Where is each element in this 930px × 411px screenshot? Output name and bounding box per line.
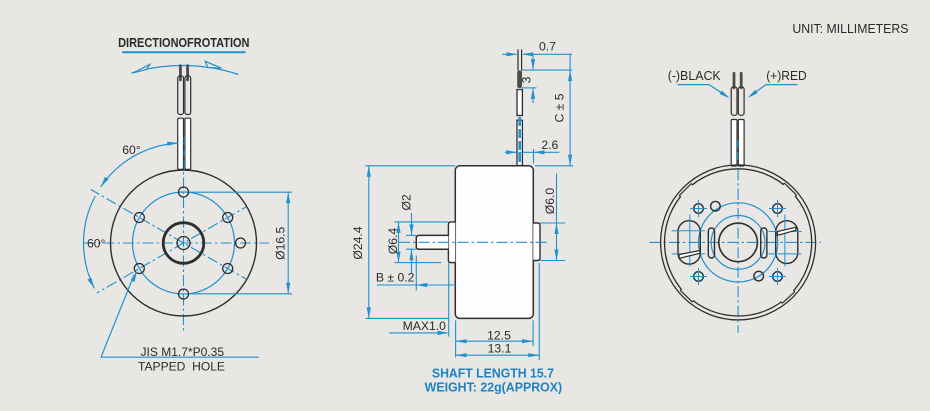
dia6.4 line xyxy=(396,222,400,263)
dim 3 extension bottom xyxy=(522,87,537,89)
dia2 extension top xyxy=(406,234,416,236)
back view vertical center line xyxy=(737,150,739,333)
back view screw hole lower left xyxy=(690,268,707,285)
front view vertical center line xyxy=(183,119,185,332)
dim C line xyxy=(568,54,572,166)
front view lead wire 2 upper segment xyxy=(185,76,191,115)
svg-text:(-)BLACK: (-)BLACK xyxy=(668,69,722,83)
dia16.5 dimension line xyxy=(286,192,290,294)
dim 12.5 ext right xyxy=(532,320,534,346)
side view motor body xyxy=(455,166,533,319)
svg-text:MAX1.0: MAX1.0 xyxy=(403,319,447,333)
svg-text:Ø6.4: Ø6.4 xyxy=(386,228,400,255)
back view rim tab at 226deg xyxy=(680,289,694,302)
dim B line xyxy=(377,283,455,287)
dim 2.6 label xyxy=(541,138,558,152)
svg-text:(+)RED: (+)RED xyxy=(766,69,807,83)
front view lead wire 1 lower segment xyxy=(178,118,184,169)
side view wire crimp xyxy=(517,71,522,89)
front view bolt circle xyxy=(133,192,235,294)
front view lead wire 1 bare tip xyxy=(179,64,182,81)
dim 2.6 extension xyxy=(533,149,535,164)
svg-text:TAPPED HOLE: TAPPED HOLE xyxy=(138,360,225,374)
black wire leader xyxy=(678,85,730,99)
back view terminal opening right xyxy=(776,221,798,264)
tapped hole leader shelf xyxy=(101,356,259,358)
side view left bearing boss xyxy=(448,222,455,263)
direction of rotation underline xyxy=(122,51,245,53)
svg-text:Ø24.4: Ø24.4 xyxy=(351,226,365,259)
side view shaft xyxy=(416,235,448,249)
dia6.4 extension top xyxy=(395,221,449,223)
direction of rotation left open arrowhead xyxy=(133,64,149,72)
front view lead wire 2 lower segment xyxy=(185,118,191,169)
dim 2.6 line xyxy=(505,150,560,154)
back view lead wire 1 bare tip xyxy=(733,72,736,89)
dim 3 label xyxy=(520,76,534,83)
front view motor outer circle xyxy=(111,170,257,316)
dim C ext bottom xyxy=(535,165,573,167)
back view right opening ticks xyxy=(769,232,802,254)
front view tapped hole at 210deg xyxy=(134,264,144,274)
dim B label xyxy=(376,271,415,285)
side view horizontal center line xyxy=(399,241,548,243)
60deg dimension arc lower xyxy=(84,196,96,288)
back view inner blue circle xyxy=(711,216,765,270)
svg-text:B ± 0.2: B ± 0.2 xyxy=(376,271,415,285)
dim B boss face extension xyxy=(448,263,450,337)
front view shaft circle xyxy=(177,237,190,250)
back view lead wire 1 lower segment xyxy=(731,120,737,167)
back view right opening vertical tick xyxy=(784,215,786,267)
dia2 label xyxy=(400,194,414,210)
back view screw hole upper left xyxy=(690,200,707,217)
dia6.0 extension top xyxy=(540,222,565,224)
back view bearing circle xyxy=(719,223,758,262)
dim B extension shaft tip xyxy=(415,256,417,291)
back view left opening vertical tick xyxy=(689,215,691,267)
dia24.4 label xyxy=(351,226,365,259)
svg-text:60°: 60° xyxy=(87,237,106,251)
dia2 line xyxy=(409,213,413,273)
weight note xyxy=(425,380,563,395)
dia16.5 extension line bottom xyxy=(190,293,293,295)
dim MAX1.0 label xyxy=(403,319,447,333)
back view vent hole upper xyxy=(711,201,721,211)
tapped hole leader arrow xyxy=(101,271,137,357)
dia6.4 extension bottom xyxy=(395,262,442,264)
dim 3 extension top xyxy=(522,69,572,71)
dia2 extension bottom xyxy=(406,248,416,250)
svg-text:C ± 5: C ± 5 xyxy=(553,93,567,122)
dim C label xyxy=(553,93,567,122)
dim 0.7 label xyxy=(539,40,556,54)
front view lead wire 1 upper segment xyxy=(178,76,184,115)
dim 13.1 label xyxy=(488,341,512,355)
back view outer circle xyxy=(661,165,816,320)
svg-text:12.5: 12.5 xyxy=(487,328,511,342)
svg-text:Ø16.5: Ø16.5 xyxy=(274,226,288,259)
side view wire bare conductor xyxy=(518,50,522,71)
svg-text:WEIGHT: 22g(APPROX): WEIGHT: 22g(APPROX) xyxy=(425,380,563,395)
dim 12.5 ext left xyxy=(455,320,457,357)
front view tapped hole at 90deg xyxy=(179,187,189,197)
dim 12.5 line xyxy=(456,339,533,343)
dim 3 line xyxy=(531,55,535,103)
back view horizontal center line xyxy=(649,241,821,243)
dia6.4 label xyxy=(386,228,400,255)
svg-text:60°: 60° xyxy=(122,143,141,157)
direction of rotation title xyxy=(118,36,249,50)
front view tapped hole at 150deg xyxy=(134,213,144,223)
front view 30deg center line xyxy=(97,207,246,293)
dia6.0 label xyxy=(543,188,557,215)
dia16.5 extension line top xyxy=(190,191,293,193)
red wire label xyxy=(766,69,807,83)
back view outer blue circle xyxy=(699,203,778,282)
svg-text:13.1: 13.1 xyxy=(488,341,512,355)
60deg label left xyxy=(87,237,106,251)
red wire leader xyxy=(748,85,798,98)
svg-text:2.6: 2.6 xyxy=(541,138,558,152)
back view vent hole lower xyxy=(754,271,764,281)
units note xyxy=(792,22,908,36)
dia6.0 extension bottom xyxy=(540,260,565,262)
side view wire insulation upper xyxy=(517,90,522,116)
back view terminal tab left xyxy=(679,251,700,259)
svg-text:Ø2: Ø2 xyxy=(400,194,414,210)
front view tapped hole at 270deg xyxy=(179,289,189,299)
back view terminal opening left xyxy=(678,221,700,264)
back view lead wire 2 upper segment xyxy=(738,87,744,115)
back view screw hole upper right xyxy=(769,200,786,217)
dia16.5 label xyxy=(274,226,288,259)
svg-text:JIS M1.7*P0.35: JIS M1.7*P0.35 xyxy=(141,345,225,359)
back view brush slot right xyxy=(761,228,767,258)
dim 13.1 line xyxy=(456,353,540,357)
back view terminal tab right xyxy=(778,227,797,235)
tapped hole label xyxy=(138,360,225,374)
back view lead wire 2 bare tip xyxy=(740,72,743,89)
dim 12.5 label xyxy=(487,328,511,342)
60deg label upper xyxy=(122,143,141,157)
back view rim tab at 45.5deg xyxy=(783,183,797,197)
back view screw hole lower right xyxy=(769,268,786,285)
back view lead wire 2 lower segment xyxy=(738,120,744,167)
tapped hole spec label xyxy=(141,345,225,359)
svg-text:0.7: 0.7 xyxy=(539,40,556,54)
svg-text:SHAFT LENGTH 15.7: SHAFT LENGTH 15.7 xyxy=(432,365,554,380)
front view lead wire 2 bare tip xyxy=(186,64,189,81)
side view wire lower segment xyxy=(517,117,522,166)
dia24.4 extension bottom xyxy=(366,317,450,319)
dia24.4 line xyxy=(367,166,371,319)
back view rim tab at 135deg xyxy=(679,184,693,198)
back view inner rim circle xyxy=(665,169,812,316)
svg-text:3: 3 xyxy=(520,76,534,83)
dia24.4 extension top xyxy=(365,165,455,167)
front view pilot hole right xyxy=(236,238,246,248)
svg-text:DIRECTIONOFROTATION: DIRECTIONOFROTATION xyxy=(118,36,249,50)
60deg dimension arc upper xyxy=(101,142,179,188)
black wire label xyxy=(668,69,722,83)
direction of rotation arc xyxy=(132,66,239,75)
front view center boss circle xyxy=(163,223,204,264)
svg-text:Ø6.0: Ø6.0 xyxy=(543,188,557,215)
back view rim tab at 312.5deg xyxy=(781,290,795,303)
side view right bearing boss xyxy=(533,223,540,261)
back view brush slot left xyxy=(708,228,714,258)
back view left opening ticks xyxy=(672,231,705,254)
front view wire gap center line xyxy=(183,137,185,169)
dim MAX1.0 line xyxy=(389,331,448,335)
front view tapped hole at 330deg xyxy=(223,264,233,274)
dim 13.1 ext right xyxy=(538,263,540,360)
shaft length note xyxy=(432,365,554,380)
dia6.0 line xyxy=(554,174,558,261)
svg-text:UNIT: MILLIMETERS: UNIT: MILLIMETERS xyxy=(792,22,908,36)
dim 0.7 line xyxy=(502,52,572,56)
front view tapped hole at 30deg xyxy=(223,213,233,223)
back view wire gap center line xyxy=(737,140,739,165)
direction of rotation right open arrowhead xyxy=(205,61,221,68)
back view lead wire 1 upper segment xyxy=(731,87,737,115)
front view horizontal center line xyxy=(84,242,269,244)
front view 150deg center line xyxy=(91,190,246,280)
